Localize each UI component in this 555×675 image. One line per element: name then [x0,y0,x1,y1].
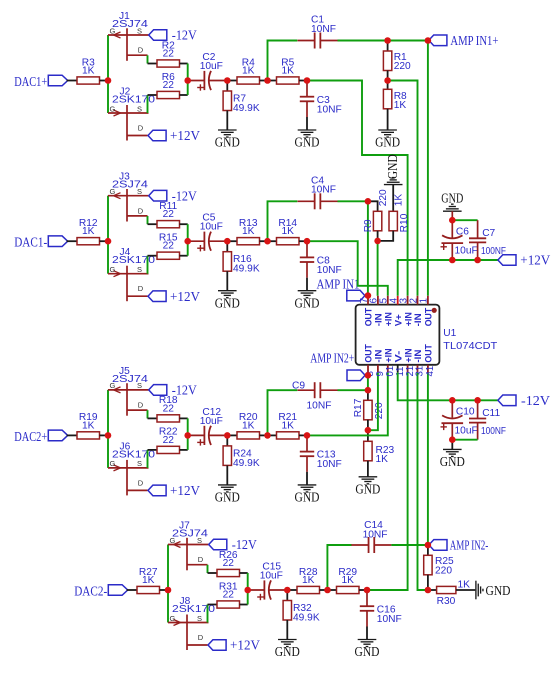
wire +12V rail [452,259,477,261]
svg-text:10uF: 10uF [455,245,478,256]
capacitor C8 10NF [300,241,342,291]
wire to R11 [148,223,158,225]
svg-text:GND: GND [355,644,380,659]
svg-text:10uF: 10uF [200,222,223,233]
capacitor C3 10NF [300,81,342,131]
wire R1-R8 node to pin2 [388,81,418,296]
junction C4-R9-pin7 [365,198,372,205]
wire 22s join [187,64,189,96]
junction mid node [264,238,271,245]
pin number 2 [408,298,419,303]
wire DAC2+ to R19 [67,434,77,436]
net label -12V (rail) [521,393,550,408]
wire C6-C7 top [452,219,477,221]
wire gate bus [167,545,169,623]
svg-text:22: 22 [223,558,235,569]
ground under R7 [215,130,240,150]
resistor R30 1K [428,580,475,607]
pin label -IN (top) [412,313,423,326]
resistor R27 1K [137,567,160,594]
net label -12V [172,188,197,203]
junction mid node [324,587,331,594]
resistor R14 1K [277,218,300,245]
svg-text:31: 31 [415,366,426,377]
wire C4 to pin7 node [338,200,368,202]
wire 22s join [247,573,249,605]
resistor R15 22 [157,233,180,260]
svg-text:-IN: -IN [412,313,423,326]
svg-text:1K: 1K [282,226,295,237]
wire J8 source up [207,605,209,623]
svg-text:S: S [137,104,142,113]
resistor R7 49.9K [223,81,260,131]
wire C1 branch up [268,41,298,81]
svg-text:GND: GND [375,135,400,150]
pin 5 stub [387,296,389,305]
junction C9-R17-pin8 [365,387,372,394]
capacitor C9 10NF [292,381,338,412]
resistor R10 1K [378,185,411,241]
junction gate node DAC1- [105,238,112,245]
junction 22s node [184,77,191,84]
net label +12V [170,289,200,304]
wire pin9 link [368,373,378,431]
ground right of R30 (rotated) [476,581,511,600]
svg-text:D: D [198,555,204,564]
transistor J7 2SJ74 (P-JFET) [168,521,209,571]
wire J3 drain down [147,216,149,224]
pin number 12 [405,366,416,377]
capacitor C5 10uF [187,213,227,252]
resistor R8 1K [383,81,407,131]
svg-text:D: D [198,633,204,642]
capacitor C13 10NF [300,435,342,485]
pin 9 stub [377,365,379,373]
resistor R24 49.9K [223,435,260,485]
net label AMP IN2- [450,537,489,552]
svg-text:C10: C10 [456,407,475,418]
wire J5 drain down [147,410,149,418]
terminal +12V [148,130,166,141]
resistor R18 22 [157,395,180,422]
wire C14 to pin14 node [391,544,428,546]
svg-text:2SJ74: 2SJ74 [172,529,208,540]
wire +12V rail to tag [478,259,498,261]
resistor R11 22 [157,201,180,228]
wire C14 branch up [327,545,351,590]
pin label OUT (top) [363,308,374,327]
junction C15 out [284,587,291,594]
ground above C6 [441,190,463,211]
pin number 4 [389,297,400,303]
pin number 6 [369,298,380,303]
svg-text:-12V: -12V [172,28,197,43]
wire R14 node to pin5 [307,241,388,296]
svg-text:10NF: 10NF [311,24,336,35]
capacitor C2 10uF [187,52,227,91]
svg-text:DAC1-: DAC1- [14,235,47,250]
wire to R13 [227,240,237,242]
wire R11 right [180,223,188,225]
wire to R26 [208,572,218,574]
wire to AMP IN1+ [388,40,428,42]
svg-text:R10: R10 [399,213,410,232]
junction AMP IN1+ [425,37,432,44]
junction C7 bottom [474,257,481,264]
junction out node [304,238,311,245]
wire R12 to gate node [100,240,109,242]
pin label OUT (bottom) [363,344,374,363]
svg-text:22: 22 [163,403,175,414]
wire R3 to gate node [100,80,109,82]
ground under R16 [215,291,240,311]
svg-text:D: D [138,401,144,410]
junction C6 bottom [449,257,456,264]
capacitor C6 10uF [441,220,478,260]
pin label +IN (bottom) [402,348,413,362]
transistor J4 2SK170 (N-JFET) [108,247,155,301]
wire R28-R29 [320,589,328,591]
svg-text:GND: GND [355,481,380,496]
svg-text:GND: GND [385,154,400,179]
resistor R13 1K [237,218,260,245]
transistor J5 2SJ74 (P-JFET) [108,366,149,416]
net label -12V [172,28,197,43]
svg-text:GND: GND [215,135,240,150]
wire R4-R5 [260,80,268,82]
transistor J1 2SJ74 (P-JFET) [108,11,149,61]
svg-text:S: S [197,614,202,623]
resistor R12 1K [77,218,100,245]
resistor R22 22 [157,427,180,454]
svg-text:220: 220 [378,189,389,206]
ground under R24 [215,485,240,505]
junction 22s node [184,238,191,245]
wire to R6 [148,94,158,96]
wire C1 to R1 top [338,40,388,42]
junction C10 bottom [449,436,456,443]
svg-text:GND: GND [295,295,320,310]
ground under R8 [375,130,400,150]
net label AMP IN1+ [450,33,498,48]
net label +12V [170,483,200,498]
wire J2 source up [147,95,149,113]
junction mid node [264,77,271,84]
pin label V- (bottom) [392,351,403,363]
svg-text:DAC2-: DAC2- [74,584,107,599]
svg-text:+12V: +12V [170,483,200,498]
pin 14 stub [427,365,429,373]
wire C10 to ground [451,440,453,450]
resistor R2 22 [157,40,180,67]
pin 4 stub [397,296,399,305]
terminal DAC1+ [48,75,67,86]
svg-text:R30: R30 [437,596,456,607]
svg-text:1K: 1K [376,454,389,465]
pin label V+ (top) [392,314,403,327]
svg-text:10NF: 10NF [363,530,388,541]
svg-text:DAC2+: DAC2+ [14,429,47,444]
svg-text:41: 41 [425,366,436,377]
pin label +IN (top) [402,312,413,326]
wire R26 right [240,572,248,574]
svg-text:+12V: +12V [170,128,200,143]
wire pin7 column [367,201,369,295]
pin label -IN (top) [373,313,384,326]
pin 12 stub [407,365,409,373]
svg-text:-IN: -IN [412,349,423,362]
svg-text:AMP IN2+: AMP IN2+ [310,350,354,365]
resistor R28 1K [297,567,320,594]
svg-text:10NF: 10NF [317,265,342,276]
wire J7 drain down [207,565,209,573]
wire gate bus [107,390,109,468]
net label AMP IN1 [317,277,360,292]
svg-text:10NF: 10NF [377,614,402,625]
svg-text:1K: 1K [242,226,255,237]
pin number 9 [375,371,386,376]
svg-text:49.9K: 49.9K [233,103,260,114]
wire gate bus [107,35,109,113]
capacitor C16 10NF [360,590,402,640]
ground under C13 [295,485,320,505]
svg-text:G: G [110,265,116,274]
terminal AMP IN2+ [347,370,365,381]
svg-text:100NF: 100NF [481,246,506,257]
svg-text:S: S [137,459,142,468]
net label +12V (rail) [520,253,550,268]
terminal -12V (rail) [498,395,516,406]
wire V- pin11 to -12V rail [398,373,498,401]
junction out node [304,432,311,439]
terminal DAC2- [108,585,127,596]
ground under R32 [275,640,300,660]
svg-text:22: 22 [163,80,175,91]
svg-text:GND: GND [440,454,465,469]
svg-text:GND: GND [215,490,240,505]
svg-text:C11: C11 [482,408,500,419]
junction C12 out [224,432,231,439]
net label DAC1+ [14,74,47,89]
junction out node [304,77,311,84]
junction C11 top [474,397,481,404]
wire 22s join [187,224,189,256]
junction gate node DAC2- [165,587,172,594]
terminal +12V (rail) [498,255,516,266]
pin label OUT (bottom) [423,344,434,363]
pin number 8 [365,371,376,376]
svg-text:220: 220 [394,61,411,72]
pin number 11 [395,366,406,376]
svg-text:+12V: +12V [230,638,260,653]
junction out node [364,587,371,594]
junction gate node DAC1+ [105,77,112,84]
wire R5 node to pin3 [307,81,408,296]
svg-text:2SK170: 2SK170 [112,449,155,460]
svg-text:DAC1+: DAC1+ [14,74,47,89]
capacitor C11 100NF [469,400,506,439]
svg-text:2SJ74: 2SJ74 [112,374,148,385]
wire DAC2- to R27 [127,589,137,591]
svg-text:49.9K: 49.9K [233,264,260,275]
terminal DAC2+ [48,430,67,441]
resistor R29 1K [337,567,360,594]
wire pin14 column [427,373,429,545]
junction AMP IN2+ tag [365,372,372,379]
svg-text:C6: C6 [456,226,469,237]
wire gate bus [107,196,109,274]
svg-text:AMP IN1: AMP IN1 [317,277,360,292]
svg-text:1K: 1K [458,580,471,591]
pin label OUT (top) [423,308,434,327]
net label -12V [172,383,197,398]
wire to R28 [287,589,297,591]
terminal -12V [149,190,167,201]
svg-text:G: G [110,459,116,468]
junction R25-R30-pin13 [425,587,432,594]
svg-text:10NF: 10NF [317,459,342,470]
resistor R5 1K [277,57,300,84]
terminal AMP IN1+ [429,35,447,46]
svg-text:-12V: -12V [521,393,550,408]
wire to R4 [227,80,237,82]
wire R15 right [180,255,188,257]
wire to R29 [328,589,337,591]
wire DAC1+ to R3 [67,80,77,82]
wire R21 node to pin10 [307,373,388,436]
svg-text:22: 22 [223,590,235,601]
junction 22s node [184,432,191,439]
svg-text:22: 22 [163,241,175,252]
wire to R18 [148,417,158,419]
wire to R2 [148,63,158,65]
wire R27 to gate node [160,589,169,591]
wire J1 drain down [147,55,149,63]
svg-text:1K: 1K [342,575,355,586]
wire R6 right [180,94,188,96]
resistor R3 1K [77,57,100,84]
svg-text:R17: R17 [353,398,364,417]
svg-text:220: 220 [435,565,452,576]
junction C10 top [449,397,456,404]
junction AMP IN1 tag [365,292,372,299]
pin label -IN (bottom) [412,349,423,362]
ground under C8 [295,291,320,311]
wire R13-R14 [260,240,268,242]
svg-text:1K: 1K [394,100,407,111]
svg-text:1K: 1K [142,575,155,586]
resistor R19 1K [77,412,100,439]
terminal -12V [209,539,227,550]
junction C2 out [224,77,231,84]
svg-text:D: D [138,478,144,487]
resistor R32 49.9K [283,590,320,640]
svg-text:10uF: 10uF [200,61,223,72]
pin number 10 [385,366,396,377]
wire to R20 [227,434,237,436]
terminal +12V [148,485,166,496]
wire to R5 [268,80,277,82]
resistor R17 220 [353,390,385,430]
svg-text:10uF: 10uF [455,426,478,437]
net label DAC1- [14,235,47,250]
wire R21 right [299,434,307,436]
junction gate node DAC2+ [105,432,112,439]
svg-text:220: 220 [374,402,385,419]
wire to R22 [148,449,158,451]
svg-text:10uF: 10uF [200,416,223,427]
svg-text:1K: 1K [82,226,95,237]
wire pin6 column [377,241,379,296]
net label -12V [232,537,257,552]
svg-text:U1: U1 [443,328,456,339]
ground under C3 [295,130,320,150]
svg-text:C9: C9 [292,381,305,392]
ground label GND (rotated) [385,154,400,179]
pin number 14 [425,366,436,377]
wire C10-C11 bottom [452,439,477,441]
wire to R14 [268,240,277,242]
wire R2 right [180,63,188,65]
svg-text:1K: 1K [242,66,255,77]
terminal AMP IN2- [429,540,447,551]
svg-text:1K: 1K [242,420,255,431]
wire R20-R21 [260,434,268,436]
junction R9-R10 bottom [374,238,381,245]
wire C4 branch up [268,201,298,241]
net label DAC2- [74,584,107,599]
terminal -12V [149,385,167,396]
wire to R15 [148,255,158,257]
svg-text:R9: R9 [363,219,374,232]
ground under C10 [440,449,465,469]
terminal -12V [149,30,167,41]
pin number 7 [359,298,370,303]
terminal +12V [208,640,226,651]
svg-text:10NF: 10NF [307,401,332,412]
svg-text:10NF: 10NF [311,185,336,196]
junction R1 top [384,37,391,44]
pin label -IN (bottom) [373,349,384,362]
svg-text:OUT: OUT [423,308,434,327]
svg-text:49.9K: 49.9K [233,458,260,469]
svg-text:100NF: 100NF [481,426,506,437]
wire J4 source up [147,256,149,274]
resistor R6 22 [157,72,180,99]
svg-text:22: 22 [163,209,175,220]
resistor R21 1K [277,412,300,439]
pin 6 stub [377,296,379,305]
capacitor C10 10uF [441,400,478,439]
junction R1-R8 [384,77,391,84]
wire ground to C6 [451,211,453,220]
svg-text:1K: 1K [302,575,315,586]
svg-text:OUT: OUT [423,344,434,363]
capacitor C15 10uF [247,562,287,601]
pin 8 stub [367,365,369,373]
capacitor C1 10NF [298,15,338,49]
svg-text:D: D [138,284,144,293]
wire AMP IN1+ to pin1 [427,41,429,296]
pin 2 stub [417,296,419,305]
svg-text:GND: GND [295,135,320,150]
svg-text:AMP IN1+: AMP IN1+ [450,33,498,48]
svg-text:2SJ74: 2SJ74 [112,19,148,30]
junction 22s node [244,587,251,594]
pin number 13 [415,366,426,377]
wire R22 right [180,449,188,451]
svg-text:AMP IN2-: AMP IN2- [450,537,489,552]
